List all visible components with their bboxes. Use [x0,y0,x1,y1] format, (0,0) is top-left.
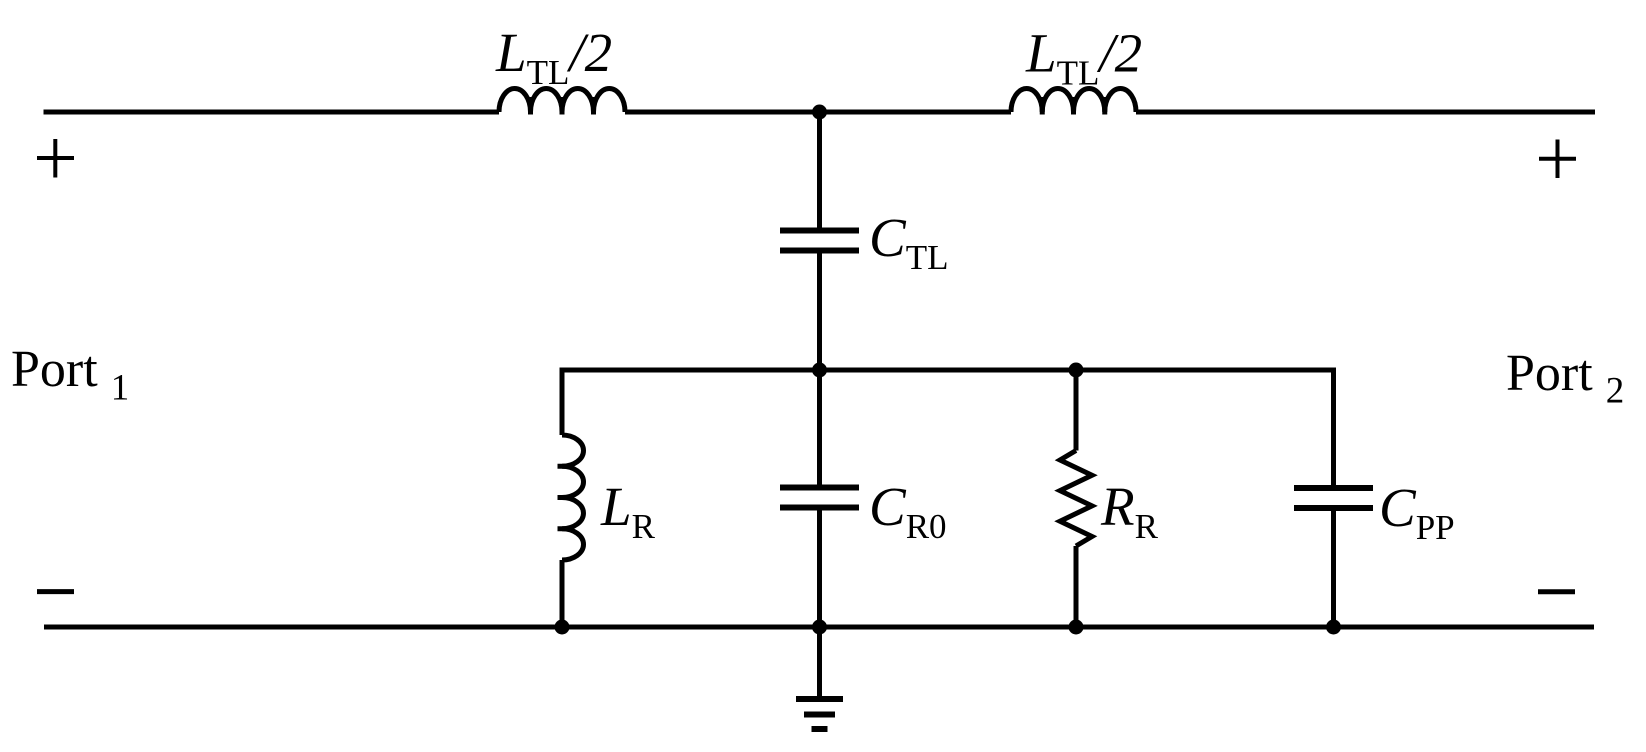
capacitor C_TL [780,231,859,251]
plus sign port 1 [37,139,74,178]
wire L_R branch top [560,368,565,436]
capacitor C_R0 [780,488,859,508]
wire C_PP branch top [1331,368,1336,486]
inductor L_R [562,435,584,560]
wire C_R0 branch bottom [817,511,822,630]
node bus R_R [1069,363,1084,378]
wire bottom [44,625,1594,630]
minus sign port 2 [1538,589,1575,594]
plus sign port 2 [1539,140,1576,179]
node bus C_R0 [812,363,827,378]
node bottom C_R0 [812,620,827,635]
resistor R_R [1060,451,1092,547]
wire top middle segment [625,110,1011,115]
wire C_R0 branch top [817,368,822,485]
wire top right segment [1136,110,1595,115]
wire junction to C_TL [817,110,822,228]
wire C_TL to shunt bus [817,254,822,373]
wire C_PP branch bottom [1331,511,1336,629]
node bottom C_PP [1326,620,1341,635]
ground [817,627,822,699]
wire R_R branch bottom [1074,546,1079,629]
node bottom R_R [1069,620,1084,635]
inductor L_TL/2 left [499,89,625,113]
minus sign port 1 [37,589,74,594]
node bottom L_R [555,620,570,635]
wire R_R branch top [1074,368,1079,451]
capacitor C_PP [1294,488,1373,508]
node top junction [812,105,827,120]
inductor L_TL/2 right [1011,89,1136,113]
wire L_R branch bottom [560,560,565,629]
wire top left segment [44,110,500,115]
wire shunt bus [560,368,1335,373]
